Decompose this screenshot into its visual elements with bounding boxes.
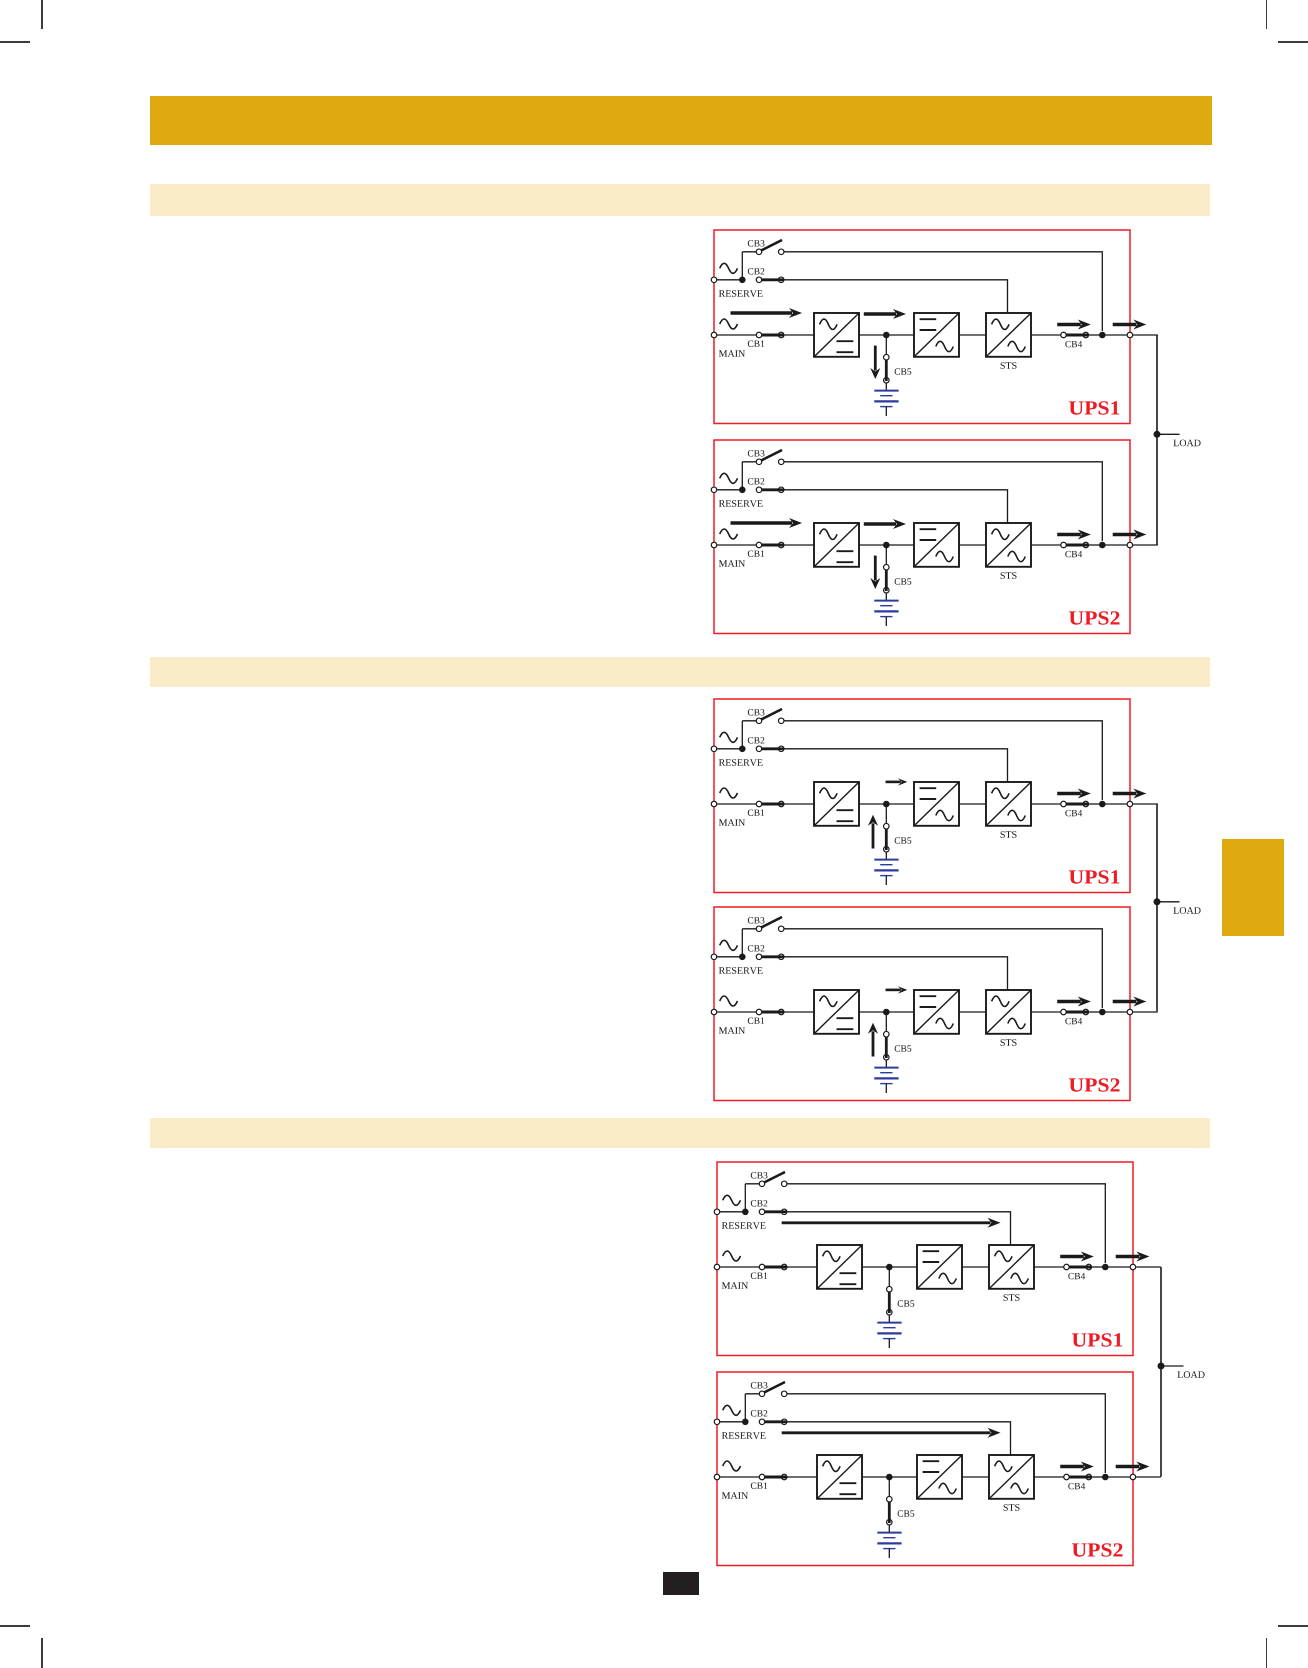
wire STS to CB4 <box>1034 1266 1067 1268</box>
wire STS to CB4 <box>1031 1011 1064 1013</box>
flow arrow main input <box>730 522 792 525</box>
wire main input <box>717 1266 817 1268</box>
wire rectifier to inverter <box>859 803 914 805</box>
label CB4 <box>1065 1017 1082 1023</box>
flow arrow reserve bypass path <box>782 1221 991 1224</box>
label STS <box>1000 1039 1016 1046</box>
label MAIN <box>719 351 745 358</box>
label MAIN <box>722 1282 748 1289</box>
inverter DC/AC converter <box>914 523 959 567</box>
breaker CB3 (open) <box>760 709 782 720</box>
wire STS to CB4 <box>1031 544 1064 546</box>
wire to CB3 <box>742 720 759 722</box>
junction reserve node <box>739 746 746 753</box>
wire junction up to CB3 <box>741 928 743 956</box>
label LOAD <box>1178 1371 1205 1378</box>
label CB2 <box>748 268 765 274</box>
label STS <box>1003 1294 1019 1301</box>
breaker CB1 (closed) <box>756 333 762 339</box>
wire output to load bus <box>1102 803 1158 805</box>
label UPS2 <box>1069 1078 1120 1091</box>
node output terminal <box>1130 1264 1136 1270</box>
label CB2 <box>748 945 765 951</box>
label MAIN <box>719 819 745 826</box>
label CB2 <box>751 1200 768 1206</box>
label UPS1 <box>1069 402 1119 415</box>
ac source RESERVE symbol <box>720 733 738 743</box>
wire rectifier to inverter <box>862 1476 917 1478</box>
wire CB3 to output junction <box>784 462 1102 541</box>
wire CB3 to output junction <box>787 1393 1105 1472</box>
section bar 1 <box>150 184 1211 216</box>
flow arrow rectifier to inverter <box>864 313 896 316</box>
UPS enclosure UPS1 <box>717 1162 1133 1356</box>
label CB5 <box>897 1300 914 1306</box>
node reserve input terminal <box>711 954 717 960</box>
wire main input <box>714 544 814 546</box>
label RESERVE <box>722 1432 766 1439</box>
wire to CB3 <box>742 927 759 929</box>
wire battery tail <box>888 1548 890 1557</box>
wire reserve input <box>714 279 742 281</box>
crop mark top-left horizontal <box>0 41 30 43</box>
wire CB5 to battery <box>888 1524 890 1532</box>
wire junction up to CB3 <box>744 1393 746 1421</box>
junction DC bus node <box>883 801 890 808</box>
ac source MAIN symbol <box>720 319 738 329</box>
junction output node <box>1099 801 1106 808</box>
flow arrow battery charging (down) <box>874 556 877 581</box>
label UPS1 <box>1072 1333 1122 1346</box>
junction DC bus node <box>883 542 890 549</box>
node output terminal <box>1127 802 1133 808</box>
breaker CB4 (closed) <box>1061 802 1067 808</box>
wire load branch <box>1161 1365 1184 1367</box>
junction DC bus node <box>886 1473 893 1480</box>
wire CB3 to output junction <box>784 721 1102 800</box>
label CB3 <box>748 917 765 923</box>
node output terminal <box>1127 333 1133 339</box>
wire output to load bus <box>1105 1476 1161 1478</box>
static transfer switch STS <box>989 1455 1034 1499</box>
flow arrow load output <box>1116 1464 1140 1467</box>
wire output to load bus <box>1102 334 1158 336</box>
static transfer switch STS <box>989 1245 1034 1289</box>
rectifier AC/DC converter <box>814 990 859 1034</box>
wire CB5 to battery <box>888 1315 890 1323</box>
crop mark top-right vertical <box>1266 0 1268 29</box>
wire DC bus to CB5 <box>888 1477 890 1497</box>
wire CB5 to battery <box>885 383 887 391</box>
wire main input <box>714 1011 814 1013</box>
label CB1 <box>748 551 765 557</box>
label MAIN <box>722 1492 748 1499</box>
label LOAD <box>1173 907 1200 914</box>
label CB5 <box>897 1510 914 1516</box>
junction load node <box>1153 899 1160 906</box>
wire reserve input <box>714 955 742 957</box>
label CB3 <box>748 709 765 715</box>
wire battery tail <box>885 876 887 885</box>
label CB2 <box>751 1410 768 1416</box>
label STS <box>1000 572 1016 579</box>
battery <box>874 390 898 392</box>
wire inverter to STS <box>962 1266 989 1268</box>
battery <box>877 1531 901 1533</box>
battery <box>874 600 898 602</box>
junction DC bus node <box>883 1008 890 1015</box>
inverter DC/AC converter <box>917 1455 962 1499</box>
node reserve input terminal <box>711 277 717 283</box>
label LOAD <box>1174 440 1201 447</box>
ac source MAIN symbol <box>723 1461 741 1471</box>
wire battery tail <box>888 1338 890 1347</box>
label RESERVE <box>719 967 763 974</box>
flow arrow battery discharging (up) <box>871 824 874 849</box>
battery <box>874 1066 898 1068</box>
flow arrow battery discharging (up) <box>871 1031 874 1056</box>
UPS enclosure UPS2 <box>717 1372 1133 1566</box>
label CB5 <box>894 838 911 844</box>
crop mark top-right horizontal <box>1278 41 1308 43</box>
breaker CB1 (closed) <box>759 1264 765 1270</box>
inverter DC/AC converter <box>917 1245 962 1289</box>
label UPS2 <box>1069 612 1120 625</box>
wire CB2 to STS bypass input <box>784 749 1008 782</box>
wire CB2 to STS bypass input <box>784 280 1008 313</box>
junction output node <box>1102 1473 1109 1480</box>
wire load bus section 3 <box>1160 1267 1162 1477</box>
wire inverter to STS <box>959 334 986 336</box>
flow arrow CB4 output <box>1057 323 1081 326</box>
label CB3 <box>748 240 765 246</box>
junction DC bus node <box>886 1264 893 1271</box>
flow arrow load output <box>1113 533 1137 536</box>
wire STS to CB4 <box>1031 803 1064 805</box>
wire inverter to STS <box>959 803 986 805</box>
flow arrow reserve bypass path <box>782 1431 991 1434</box>
label CB1 <box>748 341 765 347</box>
node reserve input terminal <box>711 487 717 493</box>
ac source MAIN symbol <box>720 529 738 539</box>
breaker CB3 (open) <box>760 240 782 251</box>
label CB3 <box>751 1172 768 1178</box>
breaker CB2 (closed) <box>756 954 762 960</box>
ac source MAIN symbol <box>720 996 738 1006</box>
wire rectifier to inverter <box>859 334 914 336</box>
node reserve input terminal <box>714 1419 720 1425</box>
wire CB4 to output junction <box>1091 1266 1105 1268</box>
wire DC bus to CB5 <box>888 1267 890 1287</box>
breaker CB5 (closed) <box>883 355 889 361</box>
static transfer switch STS <box>986 523 1031 567</box>
crop mark bottom-left vertical <box>41 1638 43 1668</box>
breaker CB1 (closed) <box>756 1009 762 1015</box>
breaker CB4 (closed) <box>1061 543 1067 549</box>
wire CB3 to output junction <box>784 252 1102 331</box>
inverter DC/AC converter <box>914 990 959 1034</box>
node reserve input terminal <box>711 746 717 752</box>
breaker CB5 (closed) <box>886 1496 892 1502</box>
breaker CB3 (open) <box>763 1382 785 1393</box>
ac source RESERVE symbol <box>720 940 738 950</box>
crop mark top-left vertical <box>41 0 43 29</box>
label CB4 <box>1068 1482 1085 1488</box>
wire to CB3 <box>742 461 759 463</box>
flow arrow load output <box>1116 1255 1140 1258</box>
wire load bus section 2 <box>1156 804 1158 1011</box>
junction output node <box>1099 1008 1106 1015</box>
label UPS1 <box>1069 871 1119 884</box>
label CB2 <box>748 478 765 484</box>
wire junction up to CB3 <box>744 1184 746 1212</box>
ac source MAIN symbol <box>723 1251 741 1261</box>
wire CB5 to battery <box>885 1059 887 1067</box>
wire DC bus to CB5 <box>885 335 887 355</box>
flow arrow load output <box>1113 999 1137 1002</box>
breaker CB3 (open) <box>760 450 782 461</box>
section bar 2 <box>150 657 1211 687</box>
wire reserve input <box>714 489 742 491</box>
flow arrow main input <box>730 312 792 315</box>
wire CB3 to output junction <box>787 1184 1105 1263</box>
flow arrow CB4 output <box>1057 533 1081 536</box>
breaker CB2 (closed) <box>759 1209 765 1215</box>
breaker CB4 (closed) <box>1061 333 1067 339</box>
UPS enclosure UPS2 <box>714 907 1130 1101</box>
breaker CB2 (closed) <box>756 746 762 752</box>
breaker CB4 (closed) <box>1064 1264 1070 1270</box>
label CB4 <box>1065 810 1082 816</box>
label STS <box>1000 363 1016 370</box>
breaker CB1 (closed) <box>756 543 762 549</box>
wire CB4 to output junction <box>1088 1011 1102 1013</box>
breaker CB1 (closed) <box>756 802 762 808</box>
label CB1 <box>751 1272 768 1278</box>
junction reserve node <box>739 953 746 960</box>
flow arrow load output <box>1113 323 1137 326</box>
wire output to load bus <box>1102 1011 1158 1013</box>
wire DC bus to CB5 <box>885 1012 887 1032</box>
breaker CB2 (closed) <box>756 277 762 283</box>
label CB5 <box>894 1045 911 1051</box>
wire DC bus to CB5 <box>885 804 887 824</box>
wire STS to CB4 <box>1034 1476 1067 1478</box>
flow arrow inverter input (battery mode) <box>885 781 900 784</box>
wire DC bus to CB5 <box>885 545 887 565</box>
wire load branch <box>1157 901 1180 903</box>
wire battery tail <box>885 1083 887 1092</box>
wire CB4 to output junction <box>1088 544 1102 546</box>
wire main input <box>714 334 814 336</box>
breaker CB5 (closed) <box>886 1286 892 1292</box>
header gold band <box>150 96 1213 146</box>
wire main input <box>717 1476 817 1478</box>
node output terminal <box>1127 1009 1133 1015</box>
wire CB2 to STS bypass input <box>784 490 1008 523</box>
wire rectifier to inverter <box>859 544 914 546</box>
label CB3 <box>748 450 765 456</box>
junction load node <box>1158 1362 1165 1369</box>
page number box <box>663 1572 699 1595</box>
wire CB5 to battery <box>885 593 887 601</box>
wire reserve input <box>714 748 742 750</box>
wire battery tail <box>885 407 887 416</box>
wire junction up to CB3 <box>741 462 743 490</box>
flow arrow battery charging (down) <box>874 346 877 371</box>
flow arrow CB4 output <box>1057 792 1081 795</box>
wire output to load bus <box>1105 1266 1161 1268</box>
label CB1 <box>748 1017 765 1023</box>
wire main input <box>714 803 814 805</box>
label RESERVE <box>722 1222 766 1229</box>
junction output node <box>1099 332 1106 339</box>
static transfer switch STS <box>986 990 1031 1034</box>
label UPS2 <box>1072 1543 1123 1556</box>
UPS enclosure UPS1 <box>714 230 1130 424</box>
wire battery tail <box>885 617 887 626</box>
junction DC bus node <box>883 332 890 339</box>
flow arrow rectifier to inverter <box>864 523 896 526</box>
junction output node <box>1099 542 1106 549</box>
junction reserve node <box>742 1418 749 1425</box>
wire CB5 to battery <box>885 852 887 860</box>
label CB4 <box>1065 341 1082 347</box>
node output terminal <box>1130 1474 1136 1480</box>
breaker CB5 (closed) <box>883 1031 889 1037</box>
label CB5 <box>894 579 911 585</box>
wire CB3 to output junction <box>784 928 1102 1007</box>
label RESERVE <box>719 500 763 507</box>
breaker CB4 (closed) <box>1061 1009 1067 1015</box>
wire to CB3 <box>745 1183 762 1185</box>
flow arrow CB4 output <box>1057 999 1081 1002</box>
breaker CB3 (open) <box>763 1172 785 1183</box>
crop mark bottom-right horizontal <box>1278 1625 1308 1627</box>
rectifier AC/DC converter <box>814 782 859 826</box>
wire load bus section 1 <box>1156 335 1158 545</box>
wire reserve input <box>717 1211 745 1213</box>
wire junction up to CB3 <box>741 721 743 749</box>
node output terminal <box>1127 543 1133 549</box>
label RESERVE <box>719 759 763 766</box>
ac source RESERVE symbol <box>723 1195 741 1205</box>
wire inverter to STS <box>959 544 986 546</box>
breaker CB3 (open) <box>760 917 782 928</box>
junction reserve node <box>739 277 746 284</box>
inverter DC/AC converter <box>914 313 959 357</box>
breaker CB2 (closed) <box>756 487 762 493</box>
label CB3 <box>751 1382 768 1388</box>
wire reserve input <box>717 1420 745 1422</box>
breaker CB2 (closed) <box>759 1419 765 1425</box>
label STS <box>1000 831 1016 838</box>
ac source RESERVE symbol <box>720 264 738 274</box>
wire output to load bus <box>1102 544 1158 546</box>
ac source RESERVE symbol <box>720 474 738 484</box>
label CB4 <box>1068 1273 1085 1279</box>
label CB4 <box>1065 551 1082 557</box>
wire CB4 to output junction <box>1091 1476 1105 1478</box>
wire CB2 to STS bypass input <box>787 1421 1011 1454</box>
junction load node <box>1154 431 1161 438</box>
rectifier AC/DC converter <box>814 523 859 567</box>
breaker CB4 (closed) <box>1064 1474 1070 1480</box>
wire rectifier to inverter <box>862 1266 917 1268</box>
junction reserve node <box>742 1208 749 1215</box>
wire CB2 to STS bypass input <box>787 1212 1011 1245</box>
wire to CB3 <box>742 251 759 253</box>
crop mark bottom-right vertical <box>1266 1638 1268 1668</box>
junction reserve node <box>739 487 746 494</box>
wire CB4 to output junction <box>1088 334 1102 336</box>
crop mark bottom-left horizontal <box>0 1625 30 1627</box>
flow arrow CB4 output <box>1060 1255 1084 1258</box>
flow arrow CB4 output <box>1060 1464 1084 1467</box>
breaker CB1 (closed) <box>759 1474 765 1480</box>
label CB2 <box>748 737 765 743</box>
side tab gold <box>1222 839 1284 936</box>
flow arrow inverter input (battery mode) <box>885 988 900 991</box>
static transfer switch STS <box>986 313 1031 357</box>
ac source RESERVE symbol <box>723 1405 741 1415</box>
battery <box>874 859 898 861</box>
ac source MAIN symbol <box>720 788 738 798</box>
section bar 3 <box>150 1118 1211 1148</box>
inverter DC/AC converter <box>914 782 959 826</box>
label MAIN <box>719 1027 745 1034</box>
wire junction up to CB3 <box>741 252 743 280</box>
UPS enclosure UPS1 <box>714 699 1130 893</box>
UPS enclosure UPS2 <box>714 440 1130 634</box>
junction output node <box>1102 1264 1109 1271</box>
wire to CB3 <box>745 1392 762 1394</box>
label CB5 <box>894 369 911 375</box>
label STS <box>1003 1504 1019 1511</box>
static transfer switch STS <box>986 782 1031 826</box>
node reserve input terminal <box>714 1209 720 1215</box>
label CB1 <box>751 1482 768 1488</box>
battery <box>877 1321 901 1323</box>
wire CB2 to STS bypass input <box>784 956 1008 989</box>
wire rectifier to inverter <box>859 1011 914 1013</box>
label CB1 <box>748 810 765 816</box>
flow arrow load output <box>1113 792 1137 795</box>
label RESERVE <box>719 291 763 298</box>
breaker CB5 (closed) <box>883 824 889 830</box>
wire CB4 to output junction <box>1088 803 1102 805</box>
label MAIN <box>719 560 745 567</box>
wire load branch <box>1157 434 1180 436</box>
rectifier AC/DC converter <box>814 313 859 357</box>
breaker CB5 (closed) <box>883 565 889 571</box>
wire inverter to STS <box>962 1476 989 1478</box>
rectifier AC/DC converter <box>817 1455 862 1499</box>
wire inverter to STS <box>959 1011 986 1013</box>
rectifier AC/DC converter <box>817 1245 862 1289</box>
wire STS to CB4 <box>1031 334 1064 336</box>
